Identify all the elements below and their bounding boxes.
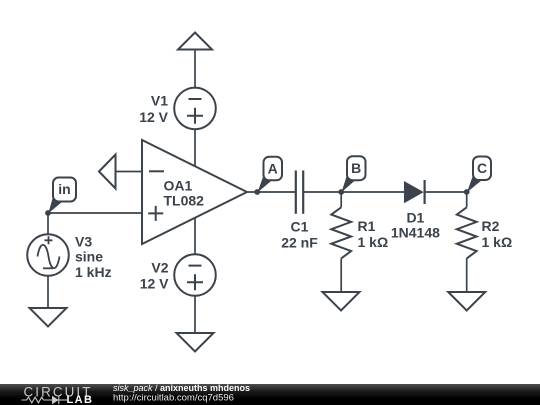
svg-text:C: C (477, 160, 487, 176)
svg-text:12 V: 12 V (139, 109, 168, 125)
svg-text:V1: V1 (151, 93, 168, 109)
svg-text:1N4148: 1N4148 (391, 224, 440, 240)
svg-text:1 kΩ: 1 kΩ (482, 234, 513, 250)
svg-text:R1: R1 (358, 218, 376, 234)
svg-text:OA1: OA1 (164, 178, 193, 194)
svg-text:B: B (351, 160, 361, 176)
svg-text:V3: V3 (75, 233, 92, 249)
svg-text:R2: R2 (482, 218, 500, 234)
svg-text:1 kΩ: 1 kΩ (358, 234, 389, 250)
svg-text:A: A (268, 160, 278, 176)
svg-text:TL082: TL082 (164, 193, 205, 209)
svg-text:V2: V2 (151, 259, 168, 275)
svg-text:in: in (58, 181, 70, 197)
svg-text:D1: D1 (406, 210, 424, 226)
svg-text:LAB: LAB (67, 394, 94, 405)
svg-text:12 V: 12 V (140, 276, 169, 292)
svg-text:sine: sine (75, 249, 103, 265)
svg-text:1 kHz: 1 kHz (75, 264, 112, 280)
svg-text:22 nF: 22 nF (281, 235, 318, 251)
svg-text:C1: C1 (291, 218, 309, 234)
svg-text:http://circuitlab.com/cq7d596: http://circuitlab.com/cq7d596 (113, 392, 234, 403)
